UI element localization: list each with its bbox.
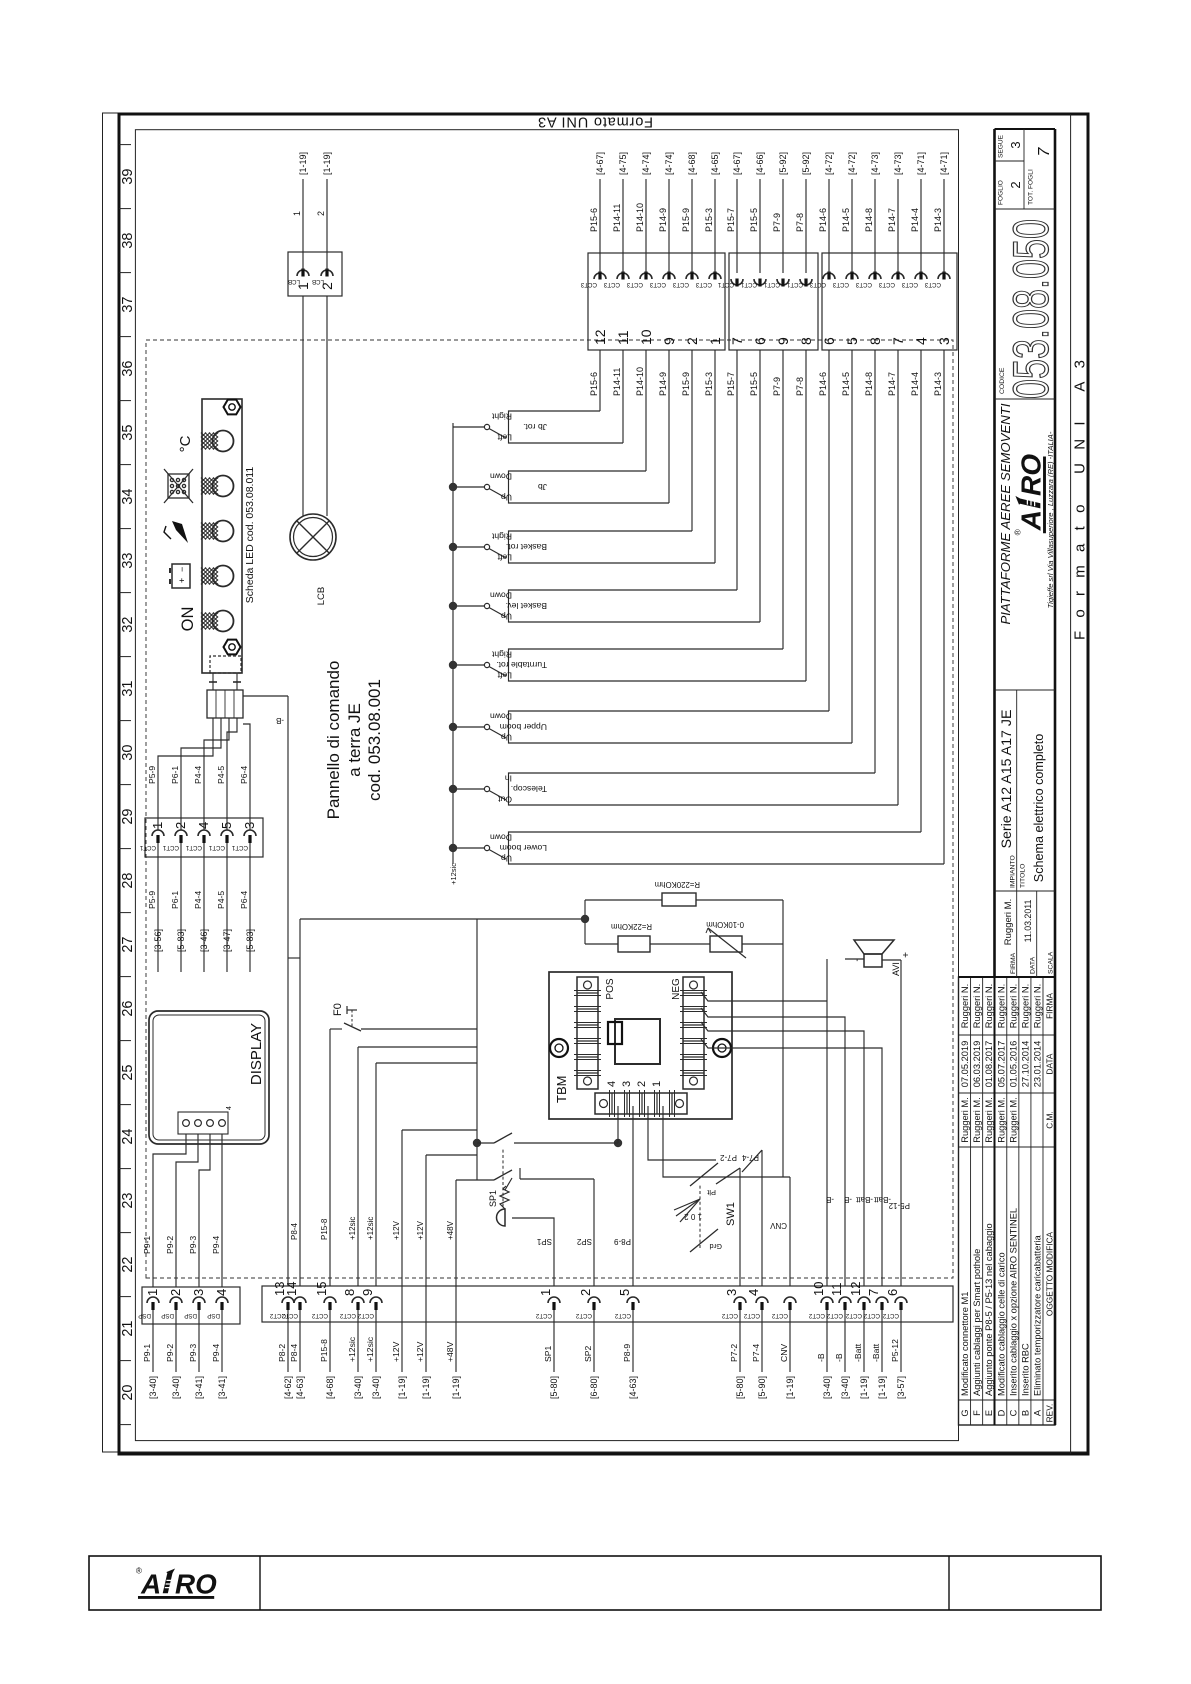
- svg-text:A: A: [140, 1568, 161, 1599]
- svg-text:RO: RO: [175, 1568, 217, 1599]
- svg-text:®: ®: [136, 1567, 142, 1576]
